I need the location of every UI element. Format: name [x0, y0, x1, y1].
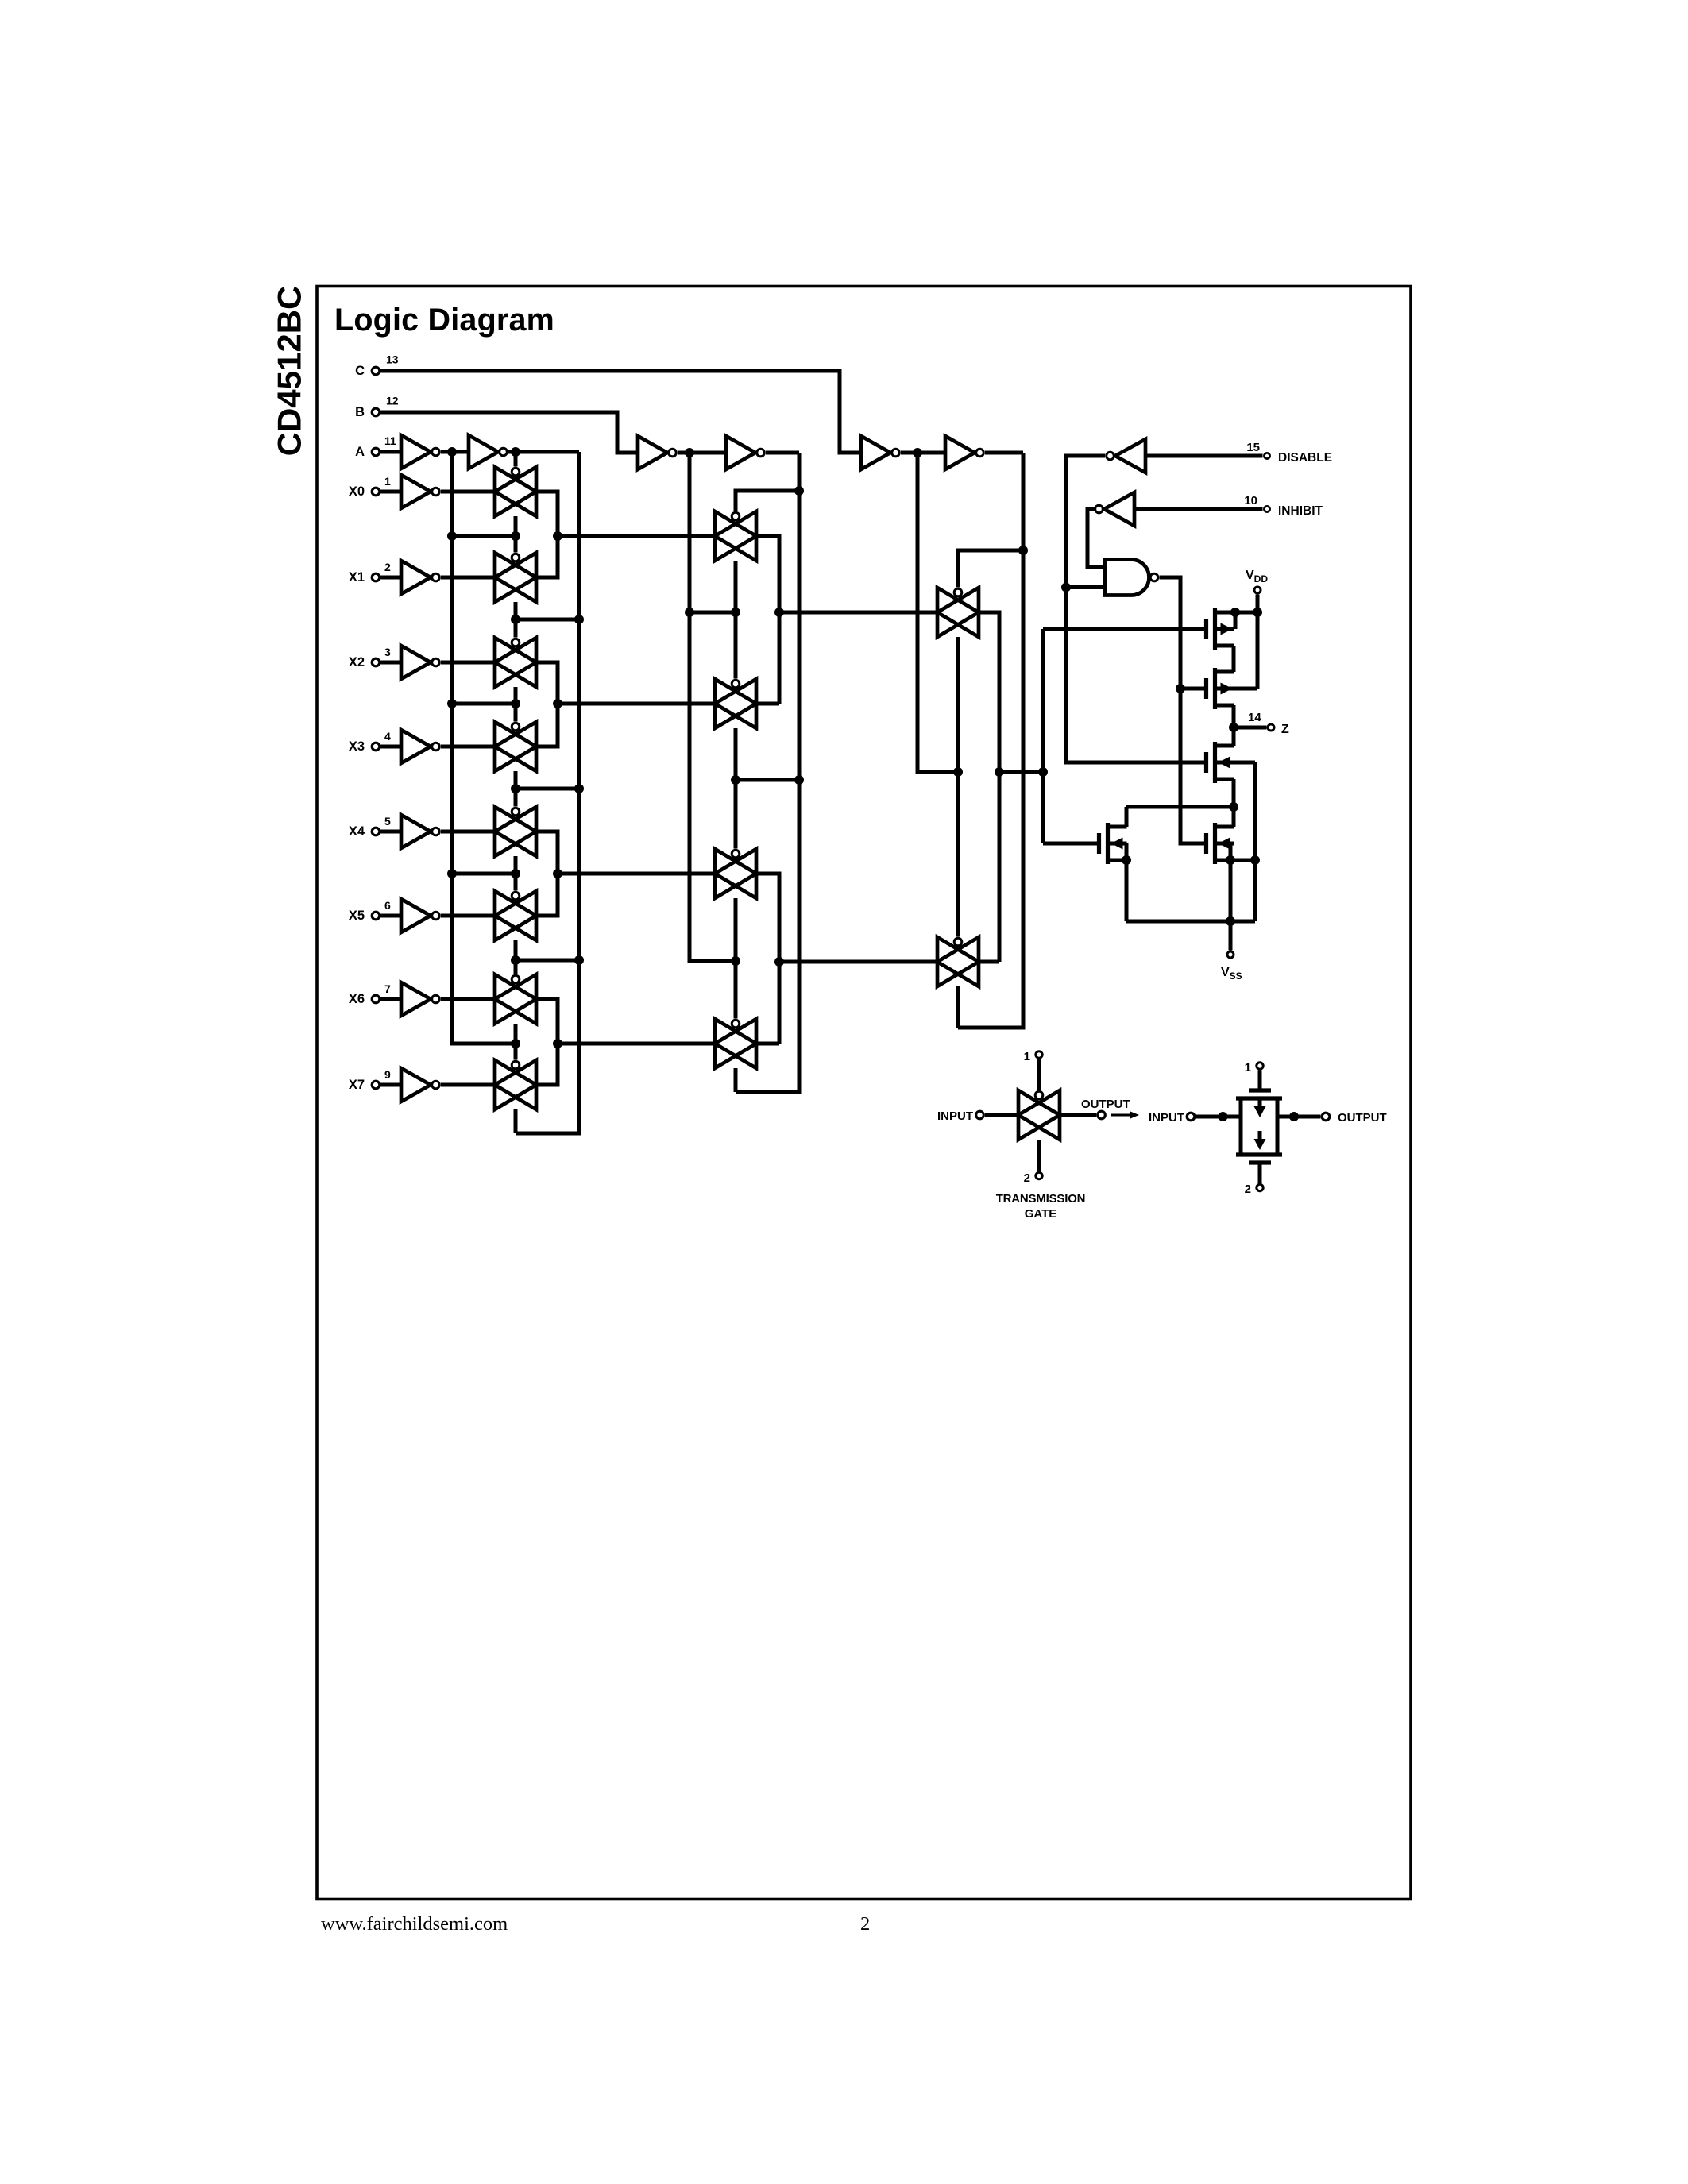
legend MOSFET pair gate pin 2: [1245, 1163, 1264, 1196]
wire stage1 pair 4 output junction: [536, 999, 715, 1085]
terminal C pin 13: [355, 353, 405, 379]
wire X3 inverter output to transmission gate: [441, 745, 495, 749]
footer page number 2: [860, 1913, 870, 1935]
wire NAND branch to PMOS Q2 gate: [1180, 687, 1207, 691]
inverter X7: [401, 1068, 439, 1102]
terminal X2 pin 3: [349, 646, 401, 669]
transistor Q5 NMOS pulldown: [1043, 807, 1131, 921]
wire Bbar control row 3: [731, 898, 740, 1019]
output node Z pin 14: [1229, 711, 1289, 736]
legend TG output terminal: [1060, 1098, 1130, 1119]
svg-text:OUTPUT: OUTPUT: [1338, 1111, 1387, 1125]
svg-text:11: 11: [384, 434, 396, 447]
svg-text:DISABLE: DISABLE: [1278, 451, 1332, 465]
transmission gate TG21: [715, 679, 756, 728]
wire B rail: [736, 453, 804, 1092]
wire A control row 2: [511, 771, 579, 807]
transmission gate TG10 input X0: [495, 467, 536, 516]
wire Cbar rail: [917, 453, 958, 772]
inverter A1: [401, 435, 439, 469]
wire Bbar rail: [685, 453, 736, 961]
transmission gate TG30: [937, 588, 979, 637]
transmission gate TG15 input X5: [495, 891, 536, 940]
wire B rail branch to TG20 top bubble: [736, 491, 799, 511]
svg-text:X2: X2: [349, 655, 365, 669]
svg-text:6: 6: [384, 899, 391, 912]
legend equivalence arrow: [1111, 1112, 1139, 1119]
svg-text:9: 9: [384, 1068, 391, 1081]
wire X6 inverter output to transmission gate: [441, 997, 495, 1001]
svg-text:GATE: GATE: [1025, 1207, 1057, 1221]
svg-text:2: 2: [384, 561, 391, 573]
terminal X7 pin 9: [349, 1068, 401, 1092]
transmission gate TG14 input X4: [495, 807, 536, 856]
wire X7 transmission gate bottom control to A rail: [514, 1109, 518, 1133]
terminal INHIBIT pin 10: [1134, 494, 1323, 518]
terminal VDD: [1246, 569, 1268, 612]
terminal X6 pin 7: [349, 982, 401, 1006]
transmission gate TG16 input X6: [495, 974, 536, 1024]
transistor Q2 PMOS: [1207, 668, 1258, 727]
wire Abar control row 2: [452, 687, 520, 722]
wire X2 inverter output to transmission gate: [441, 661, 495, 665]
svg-text:1: 1: [384, 475, 391, 488]
transmission gate TG23: [715, 1019, 756, 1068]
inverter C2: [945, 436, 983, 469]
wire A1 output to A2 with junction node Abar: [441, 447, 469, 457]
wire X4 inverter output to transmission gate: [441, 830, 495, 834]
svg-text:3: 3: [384, 646, 391, 658]
svg-text:X6: X6: [349, 992, 365, 1006]
wire data node to output transistor gates: [1038, 629, 1048, 843]
legend MOSFET bottom transistor: [1236, 1117, 1282, 1163]
wire C rail branch to TG30 top bubble: [958, 550, 1023, 588]
inverter B2: [726, 436, 764, 469]
inverter B1: [638, 436, 676, 469]
terminal X3 pin 4: [349, 730, 401, 754]
terminal X4 pin 5: [349, 815, 401, 839]
legend transmission gate symbol: [1018, 1090, 1060, 1140]
wire Abar control row 4: [452, 1024, 520, 1060]
inverter A2: [469, 435, 507, 469]
inverter X5: [401, 899, 439, 932]
wire NAND output rail: [1160, 577, 1207, 843]
terminal B pin 12: [355, 395, 405, 420]
legend MOSFET output terminal: [1277, 1111, 1387, 1125]
wire A control row 1: [511, 602, 579, 638]
svg-text:X3: X3: [349, 739, 365, 754]
wire Abar control row 1: [452, 516, 520, 553]
wire stage3 output junction: [979, 612, 1043, 962]
svg-text:1: 1: [1024, 1050, 1030, 1063]
inverter C1: [861, 436, 899, 469]
svg-text:12: 12: [386, 395, 399, 407]
wire Abar control row 3: [452, 856, 520, 891]
wire Bbar control row 1: [689, 561, 740, 679]
svg-text:www.fairchildsemi.com: www.fairchildsemi.com: [321, 1913, 508, 1935]
inverter X6: [401, 982, 439, 1016]
transistor Q1 PMOS top: [1207, 608, 1236, 672]
wire VDD source row: [1215, 608, 1263, 689]
transmission gate TG13 input X3: [495, 722, 536, 771]
inverter X3: [401, 730, 439, 763]
terminal VSS: [1221, 951, 1242, 982]
wire VSS row: [1126, 916, 1255, 951]
svg-text:C: C: [355, 364, 365, 378]
inverter X2: [401, 646, 439, 679]
svg-text:15: 15: [1246, 441, 1260, 454]
svg-text:INHIBIT: INHIBIT: [1278, 504, 1323, 518]
wire A rail: [516, 452, 584, 1133]
wire A2 output to A rail corner: [508, 447, 579, 457]
wire stage1 pair 3 output junction: [536, 832, 715, 916]
svg-text:TRANSMISSION: TRANSMISSION: [996, 1192, 1086, 1206]
wire B1 output to B2 with junction node Bbar: [678, 448, 726, 457]
wire C1 output to C2 with junction node Cbar: [901, 448, 945, 457]
transistor Q4 NMOS: [1207, 807, 1234, 864]
wire stage1 pair 2 output junction: [536, 662, 715, 747]
svg-text:2: 2: [860, 1913, 870, 1935]
nand gate U1: [1105, 560, 1158, 596]
wire INHIBIT inverter output to NAND input: [1087, 509, 1105, 567]
wire TG31 bottom control to C rail: [956, 986, 960, 1028]
wire C2 output to C rail corner: [985, 451, 1023, 455]
svg-text:X1: X1: [349, 570, 365, 585]
svg-text:INPUT: INPUT: [937, 1109, 973, 1123]
legend MOSFET top transistor: [1236, 1090, 1282, 1117]
terminal X5 pin 6: [349, 899, 401, 923]
wire X0 inverter output to transmission gate: [441, 490, 495, 494]
wire C input to inverter C1: [405, 371, 861, 453]
svg-text:CD4512BC: CD4512BC: [271, 286, 308, 457]
footer url www.fairchildsemi.com: [321, 1913, 508, 1935]
wire TG23 bottom control to B rail: [734, 1068, 738, 1092]
terminal X1 pin 2: [349, 561, 401, 585]
legend TG control pin 2: [1024, 1140, 1043, 1185]
svg-text:A: A: [355, 445, 365, 459]
inverter X0: [401, 475, 439, 508]
wire B input to inverter B1: [405, 412, 638, 453]
wire Cbar control row: [953, 637, 963, 937]
wire B control row 2: [731, 728, 799, 849]
legend MOSFET pair gate pin 1: [1245, 1061, 1264, 1090]
side label CD4512BC: [271, 286, 308, 457]
terminal A pin 11: [355, 434, 401, 459]
inverter X1: [401, 561, 439, 594]
svg-text:X4: X4: [349, 824, 365, 839]
svg-text:X7: X7: [349, 1078, 365, 1092]
inverter U-inhibit: [1095, 492, 1134, 526]
wire Abar rail: [447, 452, 516, 1044]
svg-text:4: 4: [384, 730, 391, 743]
inverter X4: [401, 815, 439, 848]
svg-text:2: 2: [1024, 1171, 1030, 1185]
svg-text:2: 2: [1245, 1183, 1251, 1196]
wire stage1 pair 1 output junction: [536, 492, 715, 577]
transmission gate TG17 input X7: [495, 1060, 536, 1109]
legend MOSFET input terminal: [1149, 1111, 1241, 1125]
svg-text:Logic Diagram: Logic Diagram: [334, 303, 554, 338]
svg-text:X5: X5: [349, 909, 365, 923]
transmission gate TG22: [715, 849, 756, 898]
wire C rail: [958, 453, 1028, 1028]
title Logic Diagram: [334, 303, 554, 338]
wire B2 output to B rail corner: [766, 451, 799, 455]
wire DISABLE inverter output rail: [1061, 456, 1207, 762]
wire stage2 pair 2 output junction: [756, 874, 937, 1044]
wire DISABLE branch to NAND input: [1066, 585, 1105, 589]
svg-text:1: 1: [1245, 1061, 1251, 1075]
legend label TRANSMISSION GATE: [996, 1192, 1086, 1221]
svg-text:7: 7: [384, 982, 391, 995]
wire A control row 3: [511, 940, 579, 974]
legend TG control pin 1: [1024, 1050, 1043, 1090]
svg-text:OUTPUT: OUTPUT: [1081, 1098, 1130, 1111]
svg-text:14: 14: [1248, 711, 1261, 724]
wire Q4 source row: [1215, 855, 1261, 921]
wire X1 inverter output to transmission gate: [441, 576, 495, 580]
wire common node below Q3: [1126, 802, 1238, 812]
wire stage2 pair 1 output junction: [756, 536, 937, 704]
transistor Q3 NMOS top: [1207, 727, 1256, 860]
wire A2 node to TG10 top bubble: [514, 452, 518, 467]
wire X5 inverter output to transmission gate: [441, 914, 495, 918]
svg-text:5: 5: [384, 815, 391, 828]
terminal X0 pin 1: [349, 475, 401, 499]
svg-text:10: 10: [1244, 494, 1257, 507]
inverter U-disable: [1107, 439, 1145, 473]
svg-text:INPUT: INPUT: [1149, 1111, 1184, 1125]
wire data node to Q1 gate: [1043, 627, 1207, 631]
wire X7 inverter output to transmission gate: [441, 1083, 495, 1087]
transmission gate TG11 input X1: [495, 553, 536, 602]
page border frame: [317, 287, 1411, 1900]
transmission gate TG12 input X2: [495, 638, 536, 687]
legend TG input terminal: [937, 1109, 1018, 1123]
svg-text:X0: X0: [349, 484, 365, 499]
svg-text:13: 13: [386, 353, 399, 366]
svg-text:Z: Z: [1281, 723, 1289, 736]
svg-text:B: B: [355, 405, 365, 419]
terminal DISABLE pin 15: [1145, 441, 1332, 465]
transmission gate TG20: [715, 511, 756, 561]
transmission gate TG31: [937, 937, 979, 986]
